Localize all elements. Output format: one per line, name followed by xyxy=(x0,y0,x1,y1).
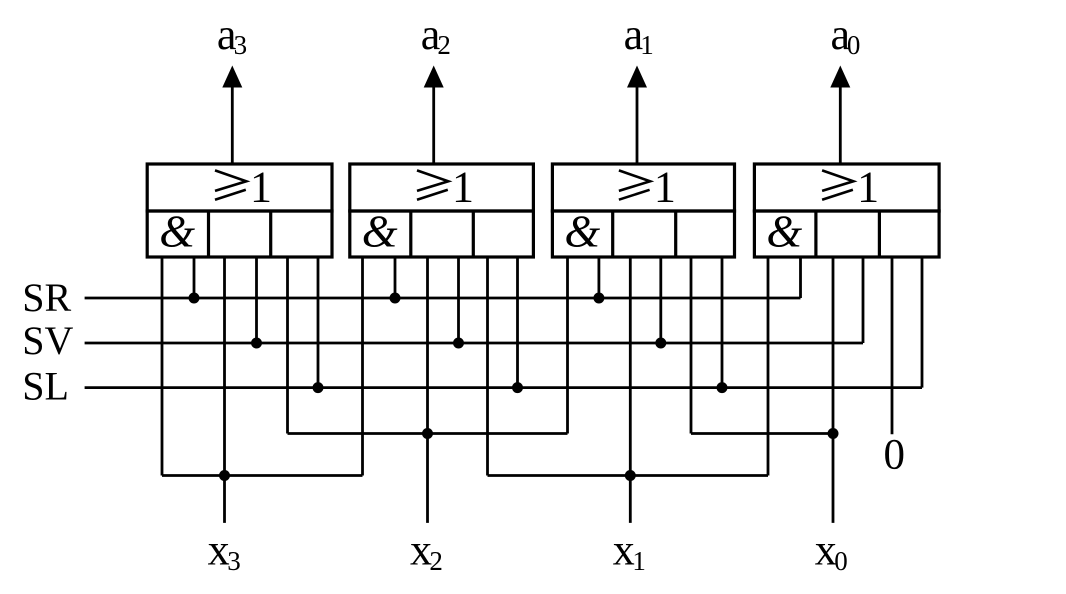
junction: SV to U3 pin 4 xyxy=(655,338,666,349)
wire: U1 pin 2 (net SR) xyxy=(193,257,196,298)
svg-text:1: 1 xyxy=(654,163,676,212)
svg-text:3: 3 xyxy=(234,30,248,60)
junction: SR to U2 pin 2 xyxy=(390,293,401,304)
junction: SV to U1 pin 4 xyxy=(251,338,262,349)
wire: U2 pin 1 (net x3) xyxy=(361,257,364,476)
wire: U3 pin 1 (net x2) xyxy=(566,257,569,434)
wire: U1 pin 1 (net x3) xyxy=(161,257,164,476)
svg-text:1: 1 xyxy=(857,163,879,212)
wire: U3 pin 3 (net x1) xyxy=(629,257,632,523)
wire: U3 pin 5 (net x0) xyxy=(690,257,693,434)
label x1 input xyxy=(613,525,646,576)
wire: net x2 horizontal (U1 pin5 - U3 pin1) xyxy=(288,432,568,435)
wire: U1 pin 4 (net SV) xyxy=(255,257,258,343)
or-gate U2A (>=1), output a2 xyxy=(350,163,534,212)
wire: U4 pin 4 (net SV) xyxy=(862,257,865,343)
svg-text:0: 0 xyxy=(834,546,848,576)
svg-text:SL: SL xyxy=(22,364,69,409)
or-gate U4A (>=1), output a0 xyxy=(754,163,939,212)
and-cell row of U2: cells U2B/&, U2C, U2D xyxy=(350,205,534,257)
wire: U3 pin 4 (net SV) xyxy=(659,257,662,343)
wire: SR control line (net SR) xyxy=(85,297,801,300)
svg-text:SR: SR xyxy=(22,275,71,320)
label x0 input xyxy=(815,525,848,576)
svg-text:x: x xyxy=(208,525,230,574)
and-cell row of U3: cells U3B/&, U3C, U3D xyxy=(552,205,734,257)
or-gate U1A (>=1), output a3 xyxy=(147,163,332,212)
wire: U2 pin 6 (net SL) xyxy=(516,257,519,388)
output wire/arrow a1 from U3 xyxy=(627,66,647,165)
junction: SL to U3 pin 6 xyxy=(717,382,728,393)
junction: x3 input at net x3 xyxy=(219,470,230,481)
junction: SV to U2 pin 4 xyxy=(453,338,464,349)
wire: U4 pin 2 (net SR) xyxy=(799,257,802,298)
svg-text:1: 1 xyxy=(452,163,474,212)
label ">=1" of U2A xyxy=(417,170,448,191)
svg-text:1: 1 xyxy=(632,546,646,576)
and-cell row of U4: cells U4B/&, U4C, U4D xyxy=(754,205,939,257)
svg-text:1: 1 xyxy=(640,30,654,60)
wire: SL control line (net SL) xyxy=(85,386,922,389)
label ">=1" of U4A xyxy=(822,170,853,191)
junction: x0 input at net x0 xyxy=(828,428,839,439)
label a3 xyxy=(217,10,247,60)
svg-text:&: & xyxy=(362,205,398,256)
svg-text:2: 2 xyxy=(437,30,451,60)
wire: net x1 horizontal (U2 pin5 - U4 pin1) xyxy=(488,474,769,477)
wire: U2 pin 3 (net x2) xyxy=(426,257,429,523)
label x3 input xyxy=(208,525,241,576)
label ">=1" of U3A xyxy=(619,170,650,191)
label a1 xyxy=(624,10,654,60)
junction: SL to U2 pin 6 xyxy=(512,382,523,393)
wire: U3 pin 2 (net SR) xyxy=(598,257,601,298)
wire: SV control line (net SV) xyxy=(85,342,863,345)
wire: U4 pin 6 (net SL) xyxy=(921,257,924,388)
wire: U1 pin 5 (net x2) xyxy=(286,257,289,434)
label x2 input xyxy=(410,525,443,576)
and-cell row of U1: cells U1B/&, U1C, U1D xyxy=(147,205,332,257)
svg-text:3: 3 xyxy=(227,546,241,576)
output wire/arrow a0 from U4 xyxy=(830,66,850,165)
or-gate U3A (>=1), output a1 xyxy=(552,163,734,212)
label a2 xyxy=(421,10,451,60)
junction: SL to U1 pin 6 xyxy=(313,382,324,393)
svg-text:&: & xyxy=(159,205,195,256)
output wire/arrow a2 from U2 xyxy=(424,66,444,165)
svg-text:&: & xyxy=(564,205,600,256)
junction: SR to U3 pin 2 xyxy=(593,293,604,304)
wire: net x0 horizontal (U3 pin5 - U4 pin3) xyxy=(691,432,833,435)
svg-text:SV: SV xyxy=(22,318,73,363)
wire: U3 pin 6 (net SL) xyxy=(721,257,724,388)
junction: SR to U1 pin 2 xyxy=(189,293,200,304)
wire: U4 pin 3 (net x0) xyxy=(832,257,835,523)
wire: U1 pin 6 (net SL) xyxy=(317,257,320,388)
label ">=1" of U1A xyxy=(215,170,246,191)
wire: U1 pin 3 (net x3) xyxy=(223,257,226,523)
svg-text:&: & xyxy=(766,205,802,256)
wire: U2 pin 5 (net x1) xyxy=(486,257,489,476)
wire: U2 pin 2 (net SR) xyxy=(394,257,397,298)
wire: U4 pin 1 (net x1) xyxy=(767,257,770,476)
svg-text:x: x xyxy=(613,525,635,574)
label a0 xyxy=(831,10,861,60)
svg-text:0: 0 xyxy=(847,30,861,60)
junction: x2 input at net x2 xyxy=(422,428,433,439)
junction: x1 input at net x1 xyxy=(625,470,636,481)
svg-text:0: 0 xyxy=(884,432,906,479)
wire: U2 pin 4 (net SV) xyxy=(457,257,460,343)
output wire/arrow a3 from U1 xyxy=(222,66,242,165)
svg-text:1: 1 xyxy=(250,163,272,212)
svg-text:2: 2 xyxy=(429,546,443,576)
wire: U4 pin 5 (net 0) xyxy=(891,257,894,434)
wire: net x3 horizontal (U1 pin1 - U2 pin1) xyxy=(162,474,363,477)
